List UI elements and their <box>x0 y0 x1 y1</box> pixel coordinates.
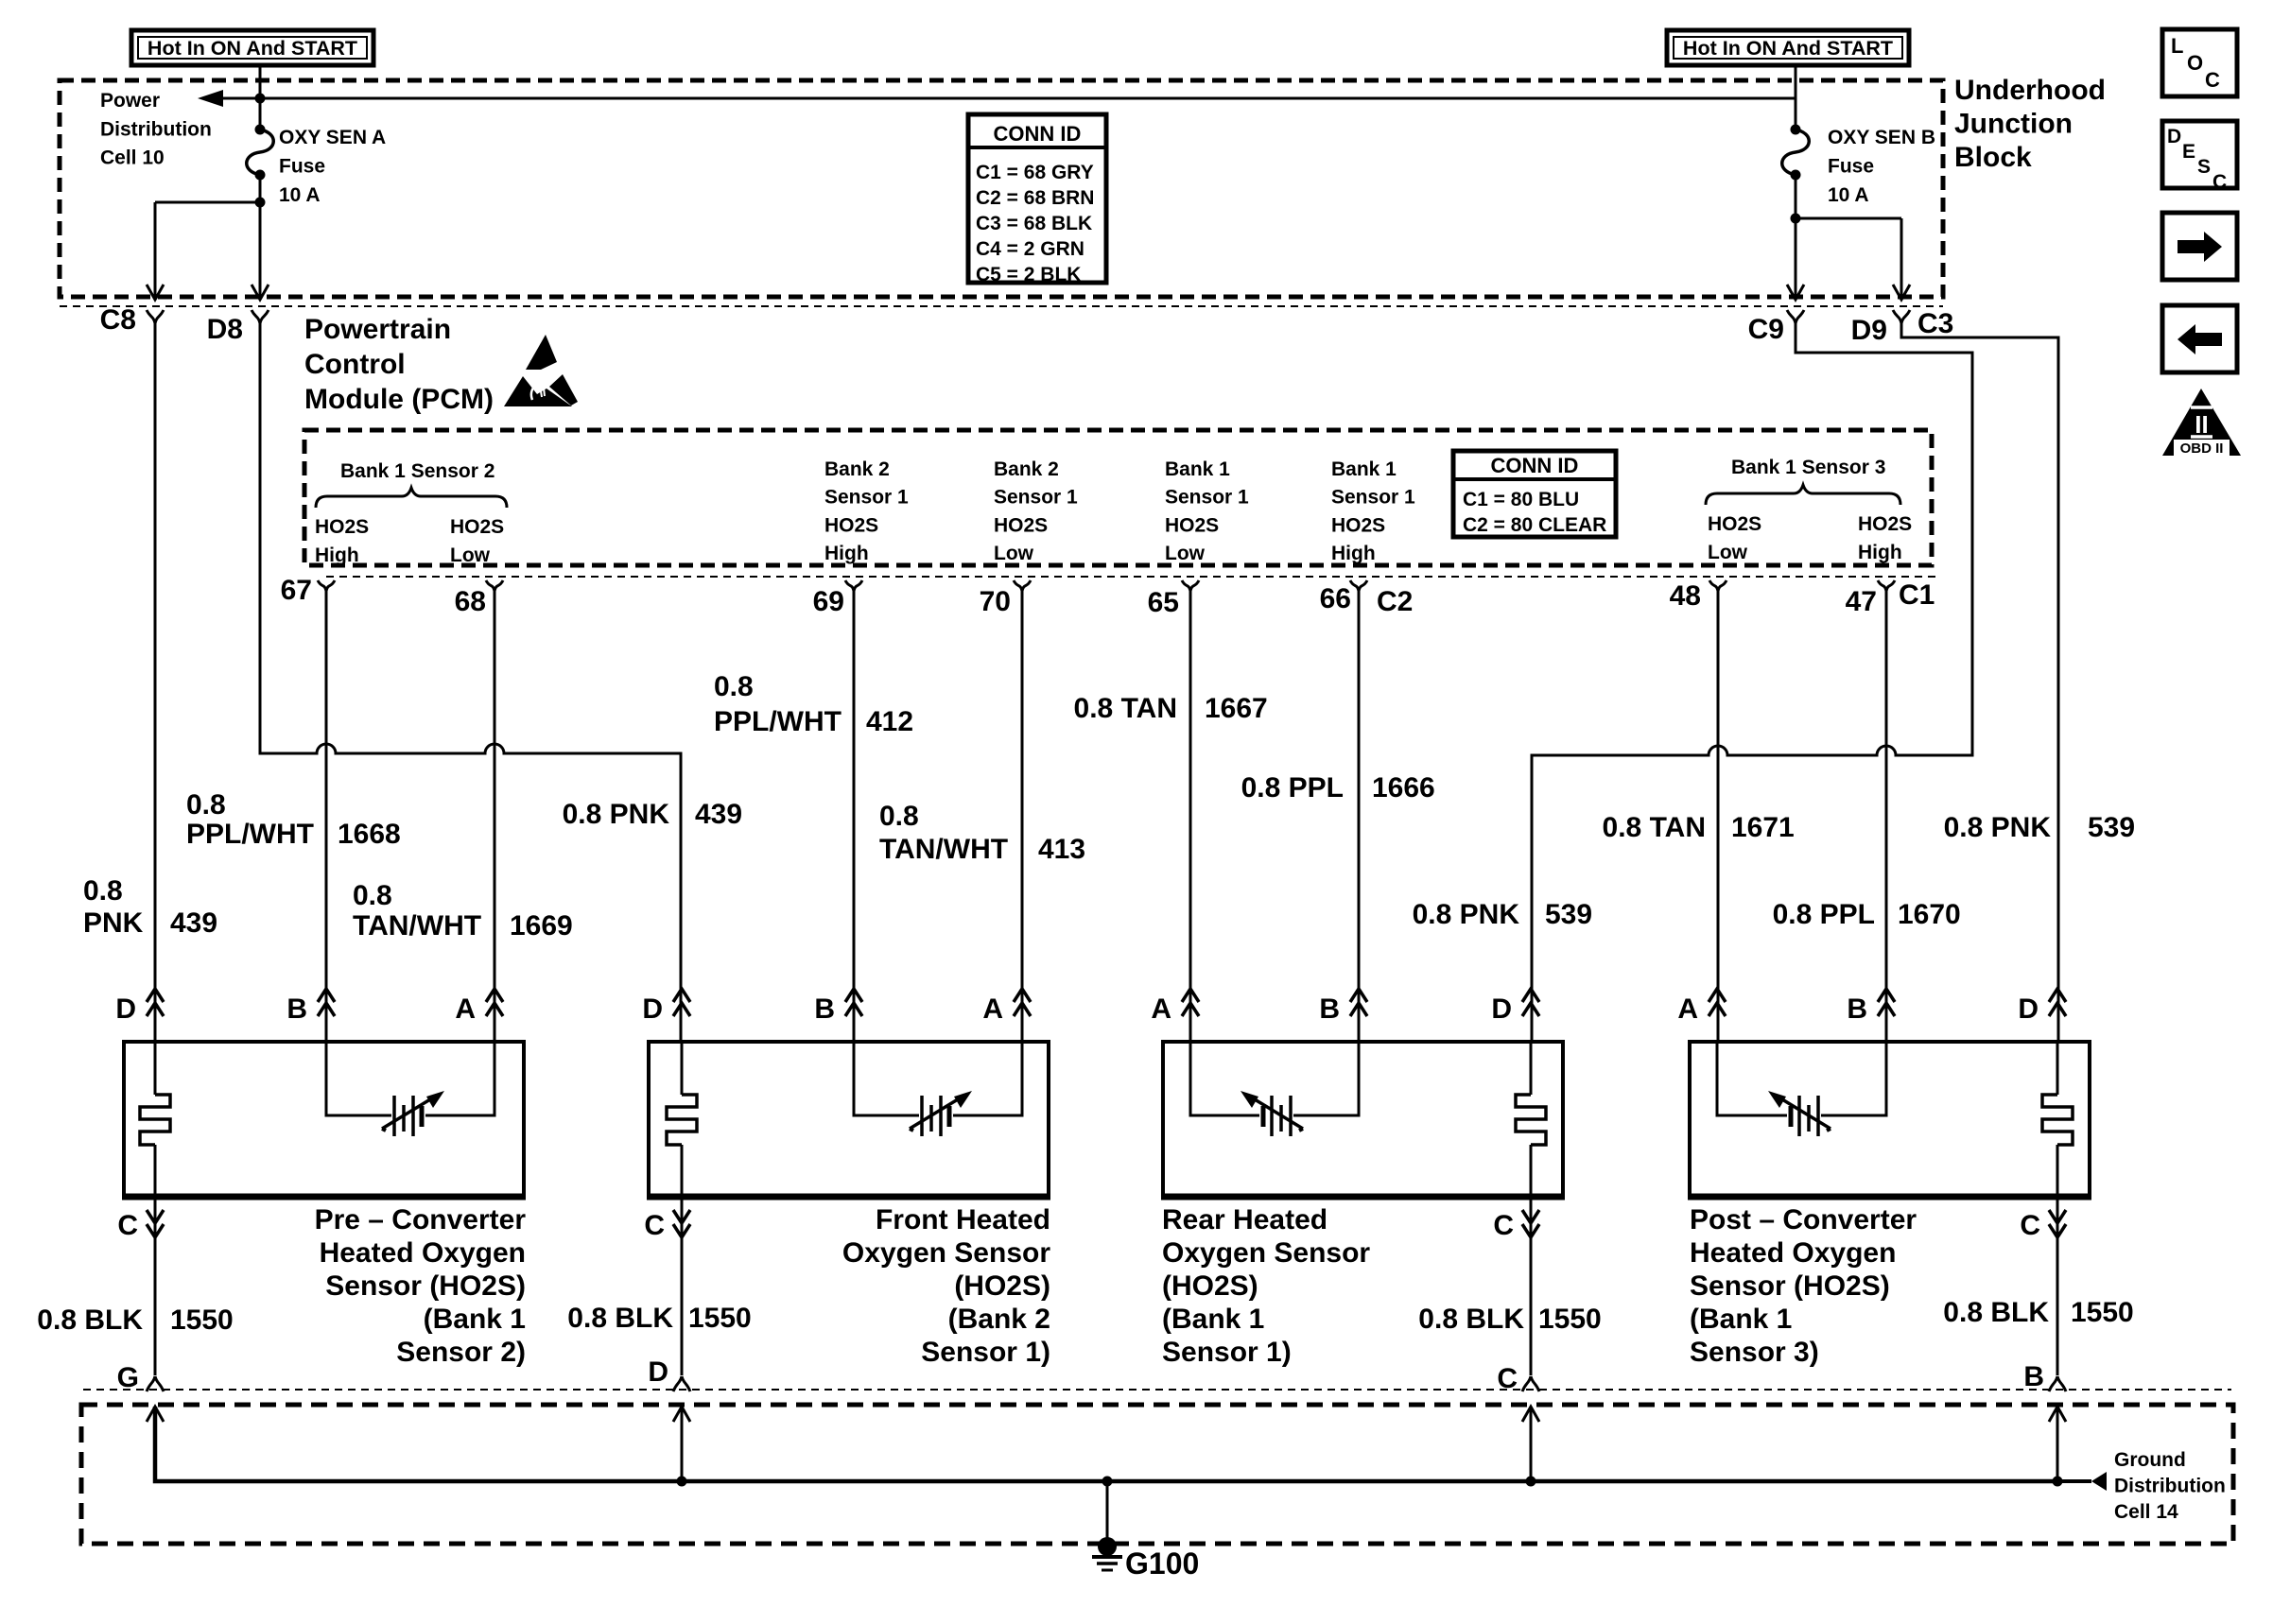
svg-text:C2: C2 <box>1377 586 1413 617</box>
svg-text:High: High <box>1331 543 1376 564</box>
svg-text:TAN/WHT: TAN/WHT <box>353 910 481 942</box>
svg-text:0.8 BLK: 0.8 BLK <box>1943 1297 2049 1328</box>
svg-text:Sensor 1: Sensor 1 <box>994 487 1078 509</box>
sensor box HO2S B2S1 (Front) <box>647 1042 1050 1197</box>
svg-text:0.8 BLK: 0.8 BLK <box>37 1304 143 1336</box>
svg-text:Bank 1 Sensor 3: Bank 1 Sensor 3 <box>1731 457 1885 478</box>
svg-text:1550: 1550 <box>2071 1297 2134 1328</box>
wire fuse A output to C8 and D8 <box>155 201 260 204</box>
svg-text:0.8: 0.8 <box>83 875 123 907</box>
svg-text:Bank 1 Sensor 2: Bank 1 Sensor 2 <box>340 460 495 482</box>
svg-text:HO2S: HO2S <box>1165 514 1219 536</box>
node Underhood Junction Block label <box>1954 75 2106 173</box>
node OXY SEN B fuse label <box>1828 127 1935 206</box>
svg-text:C: C <box>2205 68 2220 92</box>
node pin C9 <box>1748 310 1804 345</box>
node pin C of HO2S B2S1 (Front) <box>644 1210 690 1241</box>
svg-text:0.8: 0.8 <box>879 801 919 832</box>
wire label 0.8 BLK 1550 (4) <box>1943 1297 2133 1328</box>
wire pin 65 to B1S1 A <box>1189 591 1192 1042</box>
svg-text:OBD II: OBD II <box>2180 441 2224 457</box>
svg-text:C: C <box>644 1210 665 1241</box>
svg-text:D: D <box>642 993 663 1025</box>
oxygen sensor cell inside HO2S B1S1 (Rear) <box>1190 1042 1359 1136</box>
svg-text:Block: Block <box>1954 142 2032 173</box>
svg-text:D8: D8 <box>207 314 243 345</box>
svg-text:Oxygen Sensor: Oxygen Sensor <box>1162 1237 1370 1269</box>
node pin 47 <box>1846 580 1895 617</box>
svg-text:C2 = 68 BRN: C2 = 68 BRN <box>976 187 1094 209</box>
svg-text:Sensor 1: Sensor 1 <box>1331 487 1415 509</box>
svg-text:Sensor (HO2S): Sensor (HO2S) <box>1690 1270 1890 1302</box>
svg-text:0.8 TAN: 0.8 TAN <box>1074 693 1177 724</box>
node pin D of HO2S B1S1 (Rear) <box>1491 989 1539 1025</box>
node name label of HO2S B2S1 (Front) <box>842 1204 1050 1368</box>
svg-text:Pre – Converter: Pre – Converter <box>315 1204 527 1235</box>
wire label 0.8 TAN 1671 (pin 48 wire) <box>1603 812 1795 843</box>
svg-text:B: B <box>1319 993 1340 1025</box>
underhood junction block boundary <box>60 80 1943 297</box>
svg-text:OXY SEN B: OXY SEN B <box>1828 127 1935 148</box>
svg-text:D9: D9 <box>1851 315 1887 346</box>
node Bank 1 Sensor 3 group <box>1706 457 1912 563</box>
junction arrow at ground 1619 <box>1522 1407 1539 1422</box>
svg-text:68: 68 <box>455 586 486 617</box>
svg-text:Power: Power <box>100 90 160 112</box>
svg-text:S: S <box>2197 156 2211 178</box>
node CONN ID table (underhood) <box>968 114 1106 285</box>
svg-text:69: 69 <box>813 586 844 617</box>
node pin 65 <box>1148 580 1199 618</box>
svg-text:B: B <box>1847 993 1867 1025</box>
svg-text:Sensor 3): Sensor 3) <box>1690 1337 1819 1368</box>
svg-text:A: A <box>1151 993 1171 1025</box>
svg-text:B: B <box>814 993 835 1025</box>
fuse OXY SEN A 10A <box>247 98 274 202</box>
svg-text:0.8: 0.8 <box>353 880 392 911</box>
svg-text:C: C <box>117 1210 138 1241</box>
node name label of HO2S B1S1 (Rear) <box>1162 1204 1370 1368</box>
svg-text:HO2S: HO2S <box>315 516 369 538</box>
svg-text:C9: C9 <box>1748 314 1784 345</box>
junction arrow at ground 721 <box>673 1407 690 1422</box>
junction arrow at ground 164 <box>147 1407 164 1422</box>
ground distribution cell 14 dashed box <box>81 1405 2233 1544</box>
wire label 0.8 TAN/WHT 1669 (pin 68 wire) <box>353 880 573 942</box>
wire C8 to HO2S B1S2 pin D <box>154 323 157 1042</box>
svg-text:C5 = 2 BLK: C5 = 2 BLK <box>976 264 1081 285</box>
wire label 0.8 TAN 1667 (pin 65 wire) <box>1074 693 1268 724</box>
svg-text:67: 67 <box>281 575 312 606</box>
svg-text:HO2S: HO2S <box>1708 513 1761 535</box>
svg-text:G: G <box>117 1362 139 1393</box>
svg-text:(Bank 2: (Bank 2 <box>948 1304 1050 1335</box>
svg-text:A: A <box>455 993 476 1025</box>
icon LOC <box>2162 29 2237 96</box>
svg-text:Module (PCM): Module (PCM) <box>304 384 494 415</box>
svg-text:Cell 10: Cell 10 <box>100 147 165 169</box>
node pin 48 <box>1670 580 1726 612</box>
svg-text:(Bank 1: (Bank 1 <box>1690 1304 1792 1335</box>
wire pin 68 to B1S2 A <box>494 591 496 1042</box>
svg-text:Sensor 1): Sensor 1) <box>1162 1337 1292 1368</box>
node name label of HO2S B1S3 (Post-Converter) <box>1690 1204 1917 1368</box>
svg-text:C3 = 68 BLK: C3 = 68 BLK <box>976 213 1092 234</box>
svg-text:48: 48 <box>1670 580 1701 612</box>
svg-text:B: B <box>286 993 307 1025</box>
svg-text:0.8 PPL: 0.8 PPL <box>1773 899 1875 930</box>
svg-text:0.8: 0.8 <box>186 789 226 821</box>
PCM pin boundary line <box>326 576 1940 578</box>
node pin 70 <box>980 580 1031 617</box>
svg-text:Bank 2: Bank 2 <box>994 458 1059 480</box>
svg-text:HO2S: HO2S <box>450 516 504 538</box>
svg-text:1671: 1671 <box>1731 812 1795 843</box>
svg-text:10 A: 10 A <box>1828 184 1869 206</box>
node Bank 1 Sensor 2 group <box>315 460 507 566</box>
svg-text:C4 = 2 GRN: C4 = 2 GRN <box>976 238 1084 260</box>
svg-text:10 A: 10 A <box>279 184 321 206</box>
node Bank 1 Sensor 1 HO2S Low labels <box>1165 458 1249 564</box>
sensor box HO2S B1S3 (Post-Converter) <box>1688 1042 2091 1197</box>
svg-text:Control: Control <box>304 349 406 380</box>
wire label 0.8 PNK 539 (C9 wire) <box>1413 899 1592 930</box>
svg-text:Bank 2: Bank 2 <box>824 458 890 480</box>
svg-text:Heated Oxygen: Heated Oxygen <box>1690 1237 1896 1269</box>
wire label 0.8 TAN/WHT 413 (pin 70 wire) <box>879 801 1085 865</box>
svg-text:1669: 1669 <box>510 910 573 942</box>
wire pin C of HO2S B2S1 (Front) to ground <box>681 1197 684 1375</box>
node pin B of HO2S B1S2 (Pre-Converter) <box>286 989 335 1025</box>
wire pin C of HO2S B1S2 (Pre-Converter) to ground <box>154 1197 157 1375</box>
svg-text:(Bank 1: (Bank 1 <box>424 1304 526 1335</box>
wire label 0.8 BLK 1550 (3) <box>1418 1304 1601 1335</box>
svg-text:High: High <box>824 543 869 564</box>
svg-text:(HO2S): (HO2S) <box>954 1270 1050 1302</box>
oxygen sensor cell inside HO2S B1S2 (Pre-Converter) <box>326 1042 495 1136</box>
svg-text:Hot In ON And START: Hot In ON And START <box>1683 37 1893 60</box>
svg-text:Fuse: Fuse <box>1828 155 1874 177</box>
wire ground bus <box>155 1407 2057 1481</box>
svg-text:II: II <box>2195 410 2208 439</box>
svg-text:Powertrain: Powertrain <box>304 314 451 345</box>
node pin 66 <box>1320 580 1367 614</box>
svg-text:0.8 BLK: 0.8 BLK <box>567 1303 673 1334</box>
wire label 0.8 BLK 1550 (1) <box>37 1304 233 1336</box>
svg-text:O: O <box>2187 51 2203 75</box>
svg-text:HO2S: HO2S <box>1858 513 1912 535</box>
node Power Distribution Cell 10 <box>100 90 212 169</box>
svg-text:D: D <box>2167 126 2181 147</box>
node pin D9 <box>1851 310 1910 346</box>
svg-text:C3: C3 <box>1917 308 1953 339</box>
node pin A of HO2S B1S1 (Rear) <box>1151 989 1199 1025</box>
icon arrow right <box>2162 213 2237 280</box>
node ground pin B <box>2023 1361 2066 1392</box>
svg-text:1550: 1550 <box>688 1303 752 1334</box>
svg-text:1670: 1670 <box>1898 899 1961 930</box>
svg-text:1667: 1667 <box>1205 693 1268 724</box>
svg-text:C1 = 68 GRY: C1 = 68 GRY <box>976 162 1094 183</box>
svg-text:C: C <box>1493 1210 1514 1241</box>
fuse OXY SEN B 10A <box>1782 98 1810 218</box>
svg-text:HO2S: HO2S <box>824 514 878 536</box>
wire label 0.8 PNK 439 (D8 wire) <box>563 799 742 830</box>
svg-text:A: A <box>982 993 1003 1025</box>
sensor box HO2S B1S2 (Pre-Converter) <box>122 1042 526 1197</box>
svg-text:Junction: Junction <box>1954 108 2073 139</box>
wire power bus with arrow to Power Distribution Cell 10 <box>202 97 1796 100</box>
svg-text:TAN/WHT: TAN/WHT <box>879 834 1008 865</box>
node junction below fuse A <box>255 198 266 208</box>
svg-text:0.8 PNK: 0.8 PNK <box>563 799 670 830</box>
node pin A of HO2S B2S1 (Front) <box>982 989 1031 1025</box>
node Ground Distribution Cell 14 label <box>2114 1449 2226 1523</box>
node Bank 2 Sensor 1 HO2S High labels <box>824 458 909 564</box>
node OXY SEN A fuse label <box>279 127 386 206</box>
svg-text:HO2S: HO2S <box>994 514 1048 536</box>
svg-text:E: E <box>2182 141 2195 163</box>
svg-text:Sensor 2): Sensor 2) <box>396 1337 526 1368</box>
svg-text:0.8: 0.8 <box>714 671 754 702</box>
svg-text:C: C <box>2020 1210 2040 1241</box>
svg-text:65: 65 <box>1148 587 1179 618</box>
node pin A of HO2S B1S3 (Post-Converter) <box>1677 989 1726 1025</box>
svg-text:Cell 14: Cell 14 <box>2114 1501 2178 1523</box>
node junction below fuse B <box>1791 214 1801 224</box>
wire label 0.8 PPL 1670 (pin 47 wire) <box>1773 899 1961 930</box>
svg-text:Ground: Ground <box>2114 1449 2186 1471</box>
svg-text:Front Heated: Front Heated <box>876 1204 1050 1235</box>
svg-text:1666: 1666 <box>1372 772 1435 803</box>
svg-text:0.8 BLK: 0.8 BLK <box>1418 1304 1524 1335</box>
svg-text:Bank 1: Bank 1 <box>1331 458 1397 480</box>
svg-text:Oxygen Sensor: Oxygen Sensor <box>842 1237 1050 1269</box>
node ground pin C <box>1497 1363 1539 1394</box>
ground boundary thin line <box>83 1389 2231 1391</box>
wire pin C of HO2S B1S1 (Rear) to ground <box>1530 1197 1533 1375</box>
node pin A of HO2S B1S2 (Pre-Converter) <box>455 989 503 1025</box>
node pin 68 <box>455 580 503 617</box>
node pin C of HO2S B1S3 (Post-Converter) <box>2020 1210 2066 1241</box>
svg-text:G100: G100 <box>1125 1546 1199 1581</box>
wire label 0.8 PNK 439 (C8 wire) <box>83 875 217 939</box>
node Hot In ON And START (left) <box>131 30 373 65</box>
svg-text:CONN ID: CONN ID <box>994 122 1082 146</box>
icon OBD II triangle <box>2162 389 2241 457</box>
node pin B of HO2S B1S3 (Post-Converter) <box>1847 989 1895 1025</box>
svg-text:Fuse: Fuse <box>279 155 325 177</box>
node pin D of HO2S B2S1 (Front) <box>642 989 690 1025</box>
node pin B of HO2S B2S1 (Front) <box>814 989 862 1025</box>
svg-text:Low: Low <box>994 543 1034 564</box>
svg-text:High: High <box>1858 542 1902 563</box>
node pin C of HO2S B1S2 (Pre-Converter) <box>117 1210 164 1241</box>
node pin 67 <box>281 575 335 606</box>
svg-text:Rear Heated: Rear Heated <box>1162 1204 1327 1235</box>
wire bus to ground reference arrow <box>2057 1479 2091 1483</box>
svg-text:D: D <box>1491 993 1512 1025</box>
svg-text:Low: Low <box>1165 543 1206 564</box>
node pin C of HO2S B1S1 (Rear) <box>1493 1210 1539 1241</box>
svg-text:Low: Low <box>450 544 491 566</box>
svg-text:Distribution: Distribution <box>100 118 212 140</box>
svg-text:D: D <box>648 1356 668 1388</box>
svg-text:47: 47 <box>1846 586 1877 617</box>
node pin 69 <box>813 580 862 617</box>
wire pin 67 to B1S2 B <box>325 591 328 1042</box>
svg-text:D: D <box>2018 993 2039 1025</box>
svg-text:Sensor 1: Sensor 1 <box>824 487 909 509</box>
ESD sensitive symbol <box>504 335 578 406</box>
heater element inside HO2S B2S1 (Front) <box>667 1042 697 1197</box>
node pin D8 <box>207 310 269 345</box>
svg-text:OXY SEN A: OXY SEN A <box>279 127 386 148</box>
node junction dots on ground bus <box>677 1477 687 1487</box>
node pin D of HO2S B1S2 (Pre-Converter) <box>115 989 164 1025</box>
svg-text:0.8 PPL: 0.8 PPL <box>1241 772 1344 803</box>
svg-text:1550: 1550 <box>170 1304 234 1336</box>
svg-text:66: 66 <box>1320 583 1351 614</box>
svg-text:(HO2S): (HO2S) <box>1162 1270 1258 1302</box>
node ground pin G <box>117 1362 164 1393</box>
node ground pin D <box>648 1356 690 1391</box>
wire label 0.8 BLK 1550 (2) <box>567 1303 751 1334</box>
heater element inside HO2S B1S2 (Pre-Converter) <box>140 1042 170 1197</box>
node pin D of HO2S B1S3 (Post-Converter) <box>2018 989 2066 1025</box>
svg-text:PPL/WHT: PPL/WHT <box>186 819 314 850</box>
PCM boundary (top) <box>60 305 1943 307</box>
heater element inside HO2S B1S3 (Post-Converter) <box>2042 1042 2073 1197</box>
svg-text:C1: C1 <box>1899 579 1935 611</box>
node Bank 2 Sensor 1 HO2S Low labels <box>994 458 1078 564</box>
svg-text:High: High <box>315 544 359 566</box>
svg-text:B: B <box>2023 1361 2044 1392</box>
wire label 0.8 PPL/WHT 412 (pin 69 wire) <box>714 671 913 737</box>
svg-text:1668: 1668 <box>338 819 401 850</box>
svg-text:D: D <box>115 993 136 1025</box>
svg-text:Heated Oxygen: Heated Oxygen <box>320 1237 526 1269</box>
node pin B of HO2S B1S1 (Rear) <box>1319 989 1367 1025</box>
svg-text:CONN ID: CONN ID <box>1491 454 1579 477</box>
svg-text:A: A <box>1677 993 1698 1025</box>
svg-text:(Bank 1: (Bank 1 <box>1162 1304 1264 1335</box>
svg-text:PPL/WHT: PPL/WHT <box>714 706 842 737</box>
wire C9 to B1S1 pin D (hops 48,47 wires) <box>1532 323 1972 1042</box>
svg-text:C: C <box>2212 171 2227 193</box>
svg-text:539: 539 <box>2088 812 2135 843</box>
svg-text:0.8 PNK: 0.8 PNK <box>1944 812 2052 843</box>
wire pin C of HO2S B1S3 (Post-Converter) to ground <box>2056 1197 2059 1375</box>
wire pin 69 to B2S1 B <box>853 591 856 1042</box>
icon DESC <box>2162 121 2237 193</box>
svg-text:PNK: PNK <box>83 907 144 939</box>
node Powertrain Control Module (PCM) label <box>304 314 494 415</box>
node Bank 1 Sensor 1 HO2S High labels <box>1331 458 1415 564</box>
svg-text:C2 = 80 CLEAR: C2 = 80 CLEAR <box>1463 514 1606 536</box>
wire pin 48 to B1S3 A <box>1717 591 1720 1042</box>
svg-text:Low: Low <box>1708 542 1748 563</box>
wire label 0.8 PNK 539 (D9 wire) <box>1944 812 2135 843</box>
wire hot feed left (box to bus) <box>259 65 262 98</box>
svg-text:Post – Converter: Post – Converter <box>1690 1204 1917 1235</box>
heater element inside HO2S B1S1 (Rear) <box>1516 1042 1546 1197</box>
wire hot feed right (box to bus) <box>1795 65 1797 98</box>
wire fuse B output to C9 and D9 <box>1796 217 1901 220</box>
node Hot In ON And START (right) <box>1667 30 1909 65</box>
svg-text:Sensor (HO2S): Sensor (HO2S) <box>325 1270 526 1302</box>
ground G100 <box>1092 1477 1122 1571</box>
oxygen sensor cell inside HO2S B2S1 (Front) <box>854 1042 1022 1136</box>
svg-text:413: 413 <box>1038 834 1085 865</box>
svg-text:HO2S: HO2S <box>1331 514 1385 536</box>
wire D9 to B1S3 pin D <box>1901 323 2058 1042</box>
svg-text:Sensor 1: Sensor 1 <box>1165 487 1249 509</box>
svg-text:0.8 TAN: 0.8 TAN <box>1603 812 1706 843</box>
svg-text:70: 70 <box>980 586 1011 617</box>
svg-text:412: 412 <box>866 706 913 737</box>
svg-text:L: L <box>2171 34 2183 58</box>
svg-text:1550: 1550 <box>1538 1304 1602 1335</box>
svg-text:C: C <box>1497 1363 1518 1394</box>
svg-text:Hot In ON And START: Hot In ON And START <box>147 37 357 60</box>
svg-text:C8: C8 <box>100 304 136 336</box>
svg-text:Bank 1: Bank 1 <box>1165 458 1230 480</box>
svg-text:C1 = 80 BLU: C1 = 80 BLU <box>1463 489 1579 510</box>
oxygen sensor cell inside HO2S B1S3 (Post-Converter) <box>1717 1042 1886 1136</box>
sensor box HO2S B1S1 (Rear) <box>1161 1042 1565 1197</box>
svg-text:Distribution: Distribution <box>2114 1476 2226 1497</box>
svg-text:439: 439 <box>170 907 217 939</box>
node junction dot at left hot feed <box>255 94 266 104</box>
svg-text:439: 439 <box>695 799 742 830</box>
wire pin 70 to B2S1 A <box>1021 591 1024 1042</box>
svg-text:Underhood: Underhood <box>1954 75 2106 106</box>
wire pin 47 to B1S3 B <box>1885 591 1888 1042</box>
wire pin 66 to B1S1 B <box>1358 591 1361 1042</box>
junction arrow at ground 2176 <box>2049 1407 2066 1422</box>
svg-text:Sensor 1): Sensor 1) <box>921 1337 1050 1368</box>
svg-text:539: 539 <box>1545 899 1592 930</box>
node pin C8 <box>100 304 164 336</box>
icon arrow left <box>2162 305 2237 372</box>
node name label of HO2S B1S2 (Pre-Converter) <box>315 1204 527 1368</box>
wire D8 to HO2S B2S1 pin D (hops 67,68 wires) <box>260 323 681 1042</box>
node CONN ID table (PCM) <box>1453 451 1616 537</box>
wire label 0.8 PPL/WHT 1668 (pin 67 wire) <box>186 789 401 850</box>
wire label 0.8 PPL 1666 (pin 66 wire) <box>1241 772 1435 803</box>
svg-text:0.8 PNK: 0.8 PNK <box>1413 899 1520 930</box>
PCM connector dashed box <box>304 430 1932 565</box>
